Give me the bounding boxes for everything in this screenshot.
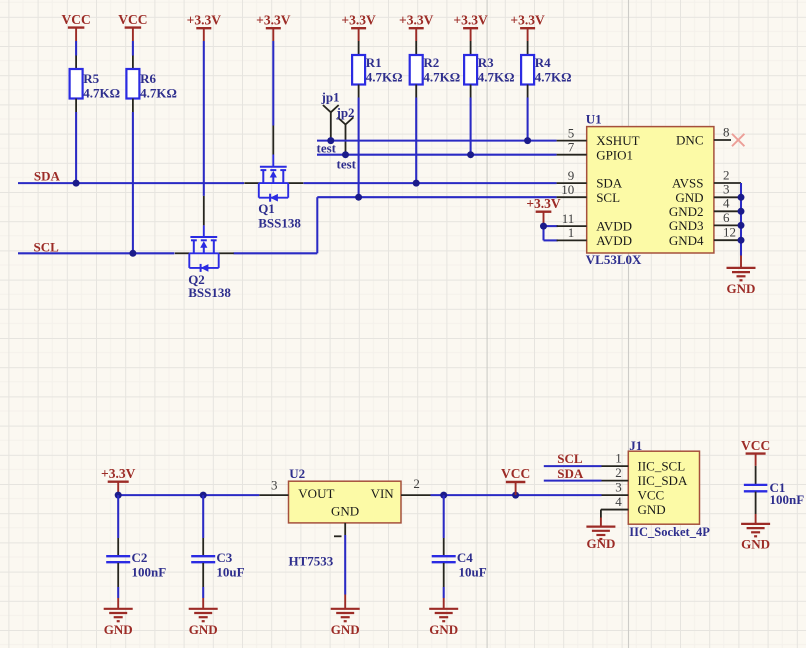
capacitor C1 <box>744 466 804 524</box>
wire VIN rail <box>431 494 602 496</box>
node rail C4 <box>440 492 447 499</box>
node bus pin6 <box>738 222 745 229</box>
svg-text:10uF: 10uF <box>216 564 244 579</box>
ground C3 <box>189 609 218 637</box>
transistor Q1 <box>244 182 303 184</box>
testpoint jp2 <box>336 105 355 155</box>
svg-text:AVDD: AVDD <box>596 219 632 234</box>
pin 2 IIC_SDA (J1) <box>602 465 688 488</box>
svg-text:SCL: SCL <box>596 190 620 205</box>
svg-text:4.7KΩ: 4.7KΩ <box>366 70 403 85</box>
wire SDA left <box>18 182 244 184</box>
wire R4 down <box>527 98 529 141</box>
testpoint jp1 <box>321 90 340 141</box>
ground J1 <box>586 527 615 552</box>
node rail VCC <box>512 492 519 499</box>
pin 9 SDA (U1 left) <box>557 168 623 191</box>
svg-text:+3.3V: +3.3V <box>256 12 291 27</box>
svg-text:R3: R3 <box>478 55 494 70</box>
power +3.3V (R3) <box>453 12 488 41</box>
wire GPIO1 net (pin 7 row) <box>317 154 557 156</box>
svg-text:+3.3V: +3.3V <box>341 12 376 27</box>
pin 3 GND (U1 right) <box>675 182 741 205</box>
svg-text:GND4: GND4 <box>669 233 704 248</box>
label SDA (J1) <box>557 466 584 481</box>
power +3.3V (AVDD) <box>526 196 561 226</box>
node R2-SDA <box>413 180 420 187</box>
wire +3.3V to Q1 gate <box>272 41 274 126</box>
pin 7 GPIO1 (U1 left) <box>557 140 633 163</box>
svg-text:+3.3V: +3.3V <box>453 12 488 27</box>
wire SCL left <box>18 252 174 254</box>
svg-text:R6: R6 <box>140 71 156 86</box>
ground U1 <box>727 268 756 296</box>
svg-text:4: 4 <box>723 196 730 211</box>
svg-text:2: 2 <box>615 465 622 480</box>
ground C4 <box>429 609 458 637</box>
svg-text:SDA: SDA <box>596 176 623 191</box>
node jp2-pin7 <box>342 151 349 158</box>
svg-text:+3.3V: +3.3V <box>101 466 136 481</box>
node AVDD junction <box>540 223 547 230</box>
ground C2 <box>104 609 133 637</box>
power +3.3V (R4) <box>510 12 545 41</box>
wire R5 to SDA <box>75 112 77 183</box>
svg-text:IIC_Socket_4P: IIC_Socket_4P <box>629 525 710 539</box>
svg-text:test: test <box>337 156 357 171</box>
node rail C2 <box>115 492 122 499</box>
svg-text:VCC: VCC <box>741 438 770 453</box>
node bus pin12 <box>738 237 745 244</box>
svg-text:GPIO1: GPIO1 <box>596 147 633 162</box>
svg-text:4.7KΩ: 4.7KΩ <box>535 70 572 85</box>
svg-text:1: 1 <box>615 451 622 466</box>
pin 12 GND4 (U1 right) <box>669 225 741 248</box>
svg-text:6: 6 <box>723 210 730 225</box>
svg-text:VCC: VCC <box>118 12 147 27</box>
svg-text:GND: GND <box>638 502 666 517</box>
svg-text:J1: J1 <box>629 438 642 453</box>
svg-text:SDA: SDA <box>34 169 61 184</box>
svg-text:100nF: 100nF <box>770 492 805 507</box>
svg-text:2: 2 <box>413 476 420 491</box>
svg-text:BSS138: BSS138 <box>258 216 301 231</box>
resistor R4 <box>521 41 571 98</box>
svg-text:4: 4 <box>615 494 622 509</box>
node rail C3 <box>200 492 207 499</box>
node R5-SDA <box>73 180 80 187</box>
power VCC (R6) <box>118 12 147 41</box>
label Q2 <box>188 272 231 300</box>
no-connect X on pin 8 <box>732 134 744 146</box>
resistor R5 <box>70 56 120 113</box>
pin 2 VIN (U2) <box>401 476 431 495</box>
svg-text:R2: R2 <box>423 55 439 70</box>
svg-text:5: 5 <box>568 125 575 140</box>
label Q1 <box>258 201 301 231</box>
svg-text:SCL: SCL <box>557 451 583 466</box>
node R1-SCL <box>355 194 362 201</box>
label SCL (J1) <box>557 451 583 466</box>
svg-text:GND: GND <box>331 504 359 519</box>
wire GND bus red stub <box>740 256 742 268</box>
connector J1 body <box>628 438 710 539</box>
svg-text:3: 3 <box>723 182 730 197</box>
wire SDA right to pin 9 <box>304 182 557 184</box>
svg-text:GND: GND <box>189 622 218 637</box>
svg-text:jp2: jp2 <box>336 105 355 120</box>
svg-text:DNC: DNC <box>676 133 703 148</box>
svg-text:R4: R4 <box>535 55 551 70</box>
svg-text:4.7KΩ: 4.7KΩ <box>478 70 515 85</box>
svg-text:VOUT: VOUT <box>298 486 334 501</box>
regulator U2 HT7533 body <box>289 466 402 568</box>
transistor Q2 <box>175 252 234 254</box>
svg-text:+3.3V: +3.3V <box>526 196 561 211</box>
svg-text:+3.3V: +3.3V <box>510 12 545 27</box>
svg-text:Q1: Q1 <box>258 201 275 216</box>
svg-text:AVSS: AVSS <box>672 176 704 191</box>
capacitor C4 <box>432 495 487 609</box>
svg-text:10: 10 <box>561 182 574 197</box>
resistor R2 <box>410 41 460 98</box>
svg-text:VIN: VIN <box>371 486 395 501</box>
svg-text:U2: U2 <box>289 466 305 481</box>
svg-text:+3.3V: +3.3V <box>187 12 222 27</box>
svg-text:GND: GND <box>331 622 360 637</box>
svg-text:7: 7 <box>568 140 575 155</box>
wire VCC to R5 <box>75 41 77 56</box>
pin 3 VCC (J1) <box>602 480 665 503</box>
pin 3 VOUT (U2) <box>259 478 288 496</box>
svg-text:9: 9 <box>568 168 575 183</box>
svg-text:XSHUT: XSHUT <box>596 133 639 148</box>
node R6-SCL <box>129 250 136 257</box>
pin 4 GND2 (U1 right) <box>669 196 741 219</box>
svg-text:4.7KΩ: 4.7KΩ <box>83 85 120 100</box>
pin 5 XSHUT (U1 left) <box>557 125 640 148</box>
svg-text:100nF: 100nF <box>132 564 167 579</box>
capacitor C3 <box>191 495 244 609</box>
ground U2 <box>331 609 360 637</box>
svg-text:VCC: VCC <box>638 488 665 503</box>
wire R2 down <box>415 98 417 184</box>
wire AVDD pin 1 <box>544 239 558 241</box>
pin gate Q1 <box>272 126 274 168</box>
wire SCL stub (J1) <box>544 465 602 467</box>
wire AVDD vertical <box>542 226 544 240</box>
svg-text:3: 3 <box>615 480 622 495</box>
pin 10 SCL (U1 left) <box>557 182 621 205</box>
pin 1 AVDD (U1 left) <box>557 225 632 248</box>
svg-text:IIC_SCL: IIC_SCL <box>638 459 686 474</box>
pin 1 GND (U2) <box>334 523 345 536</box>
capacitor C2 <box>106 495 166 609</box>
wire SCL jog vertical <box>316 197 318 253</box>
label test (jp2) <box>337 156 357 171</box>
wire R6 to SCL <box>132 112 134 253</box>
svg-text:2: 2 <box>723 167 730 182</box>
node bus pin4 <box>738 208 745 215</box>
label test (jp1) <box>317 140 337 155</box>
svg-text:GND: GND <box>429 622 458 637</box>
svg-text:GND: GND <box>727 281 756 296</box>
pin 6 GND3 (U1 right) <box>669 210 741 233</box>
power +3.3V (Q1 gate) <box>256 12 291 41</box>
power +3.3V (Q2 gate) <box>187 12 222 41</box>
resistor R3 <box>464 41 514 98</box>
wire J1 GND elbow <box>601 510 628 527</box>
wire R3 down <box>470 98 472 155</box>
svg-text:VL53L0X: VL53L0X <box>586 252 642 267</box>
power VCC (R5) <box>61 12 90 41</box>
svg-text:R5: R5 <box>83 71 99 86</box>
pin 11 AVDD (U1 left) <box>557 211 632 234</box>
svg-text:8: 8 <box>723 125 730 140</box>
label SDA <box>34 169 61 184</box>
svg-text:GND: GND <box>104 622 133 637</box>
pin 8 DNC (U1 right) <box>676 125 731 148</box>
svg-text:GND2: GND2 <box>669 204 704 219</box>
node R3-pin7 <box>467 151 474 158</box>
power VCC (C1) <box>741 438 770 466</box>
svg-text:HT7533: HT7533 <box>289 553 334 568</box>
svg-text:SCL: SCL <box>34 240 60 255</box>
svg-text:4.7KΩ: 4.7KΩ <box>423 70 460 85</box>
wire +3.3V to Q2 gate <box>203 41 205 196</box>
power +3.3V (R2) <box>399 12 434 41</box>
wire VCC to R6 <box>132 41 134 56</box>
ground C1 <box>741 524 770 551</box>
power +3.3V (bottom) <box>101 466 136 495</box>
label SCL <box>34 240 60 255</box>
svg-text:U1: U1 <box>586 111 602 126</box>
svg-text:C2: C2 <box>132 550 148 565</box>
svg-text:BSS138: BSS138 <box>188 285 231 300</box>
wire SCL to pin 10 <box>317 196 556 198</box>
svg-text:12: 12 <box>723 225 736 240</box>
svg-text:+3.3V: +3.3V <box>399 12 434 27</box>
power +3.3V (R1) <box>341 12 376 41</box>
svg-text:C4: C4 <box>457 550 473 565</box>
svg-text:GND3: GND3 <box>669 218 704 233</box>
svg-text:SDA: SDA <box>557 466 584 481</box>
wire GND bus vertical <box>740 183 742 256</box>
power VCC (bottom rail) <box>501 466 530 495</box>
svg-text:10uF: 10uF <box>459 564 487 579</box>
wire R1 down <box>358 98 360 198</box>
svg-text:3: 3 <box>271 478 278 493</box>
svg-text:IIC_SDA: IIC_SDA <box>638 473 688 488</box>
pin 4 GND (J1) <box>602 494 666 517</box>
pin 1 IIC_SCL (J1) <box>602 451 686 474</box>
ic U1 VL53L0X body <box>586 111 714 266</box>
svg-text:AVDD: AVDD <box>596 233 632 248</box>
svg-text:4.7KΩ: 4.7KΩ <box>140 85 177 100</box>
wire AVDD pin 11 <box>544 225 558 227</box>
node jp1-pin5 <box>327 137 334 144</box>
pin gate Q2 <box>203 196 205 237</box>
svg-text:VCC: VCC <box>61 12 90 27</box>
svg-text:GND: GND <box>741 536 770 551</box>
svg-text:C3: C3 <box>216 550 232 565</box>
svg-text:VCC: VCC <box>501 466 530 481</box>
svg-text:GND: GND <box>675 190 703 205</box>
node bus pin3 <box>738 194 745 201</box>
svg-text:R1: R1 <box>366 55 382 70</box>
svg-text:11: 11 <box>562 211 575 226</box>
wire SDA stub (J1) <box>544 480 602 482</box>
wire 3.3V rail to VOUT <box>118 494 259 496</box>
wire SCL from Q2 to jog <box>234 252 318 254</box>
svg-text:GND: GND <box>586 536 615 551</box>
svg-text:1: 1 <box>568 225 575 240</box>
svg-text:jp1: jp1 <box>321 90 340 105</box>
wire U2 GND down <box>344 535 346 609</box>
resistor R1 <box>352 41 402 98</box>
node R4-pin5 <box>524 137 531 144</box>
resistor R6 <box>126 56 176 113</box>
pin 2 AVSS (U1 right) <box>672 167 741 190</box>
wire XSHUT net (pin 5 row) <box>317 140 557 142</box>
